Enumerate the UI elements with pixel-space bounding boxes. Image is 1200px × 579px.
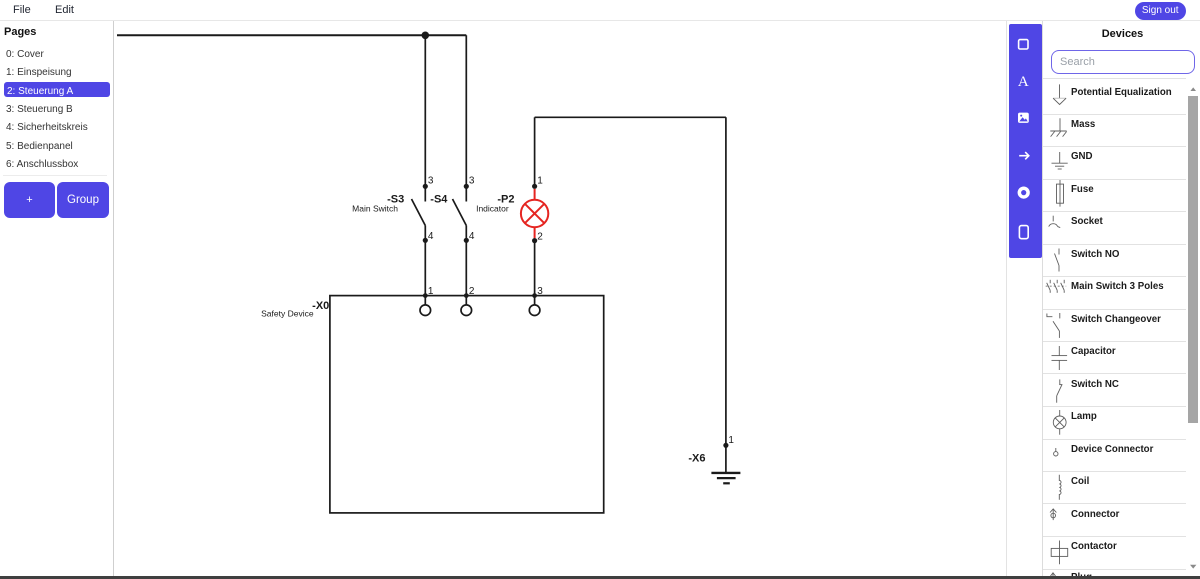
switch S3 (NO contact, Main Switch) bbox=[412, 184, 428, 243]
svg-text:2: 2 bbox=[469, 286, 475, 297]
devices panel title bbox=[1050, 28, 1195, 40]
svg-text:3: 3 bbox=[469, 176, 475, 187]
scrollbar down arrow bbox=[1190, 565, 1196, 569]
svg-text:Safety Device: Safety Device bbox=[261, 308, 314, 318]
svg-text:2: 2 bbox=[537, 232, 543, 243]
terminal strip X0 (Safety Device box) bbox=[330, 296, 604, 513]
svg-text:4: 4 bbox=[469, 231, 475, 242]
device list separators bbox=[1043, 78, 1186, 79]
top menu bar bbox=[0, 0, 1200, 21]
svg-text:1: 1 bbox=[428, 286, 434, 297]
device list glyphs bbox=[1046, 84, 1068, 576]
toolbar icon: record dot bbox=[1018, 187, 1030, 199]
device icon: switch NO bbox=[1055, 249, 1060, 272]
device icon: lamp bbox=[1053, 410, 1066, 435]
device icon: connector bbox=[1050, 509, 1056, 520]
left sidebar bbox=[113, 21, 114, 576]
wire: S4 down to terminal strip X0 pin 2 bbox=[464, 240, 469, 305]
device icon: plug (partially visible) bbox=[1051, 573, 1056, 577]
lamp P2 (red indicator) bbox=[521, 184, 548, 244]
device icon: mass bbox=[1050, 118, 1066, 136]
toolbar icon: rectangle tool bbox=[1019, 40, 1028, 49]
toolbar icon: phone tool bbox=[1019, 226, 1028, 239]
device icon: device connector bbox=[1054, 448, 1058, 456]
wire: horizontal bus over to X6 bbox=[535, 116, 726, 118]
svg-text:Main Switch: Main Switch bbox=[352, 204, 398, 214]
add page button bbox=[4, 182, 55, 218]
canvas right border bbox=[1006, 21, 1007, 576]
svg-text:Indicator: Indicator bbox=[476, 204, 509, 214]
wire: vertical drop from bus to S4 bbox=[465, 35, 467, 186]
devices scrollbar thumb bbox=[1188, 96, 1198, 423]
svg-text:3: 3 bbox=[537, 286, 543, 297]
svg-text:3: 3 bbox=[428, 176, 434, 187]
junction node on top bus bbox=[422, 32, 430, 40]
device icon: capacitor bbox=[1052, 346, 1068, 370]
sign out button bbox=[1135, 2, 1186, 20]
search input bbox=[1051, 50, 1195, 74]
svg-text:-X6: -X6 bbox=[688, 452, 705, 464]
device icon: coil bbox=[1059, 475, 1061, 500]
device icon: socket bbox=[1049, 216, 1061, 228]
svg-text:A: A bbox=[1018, 74, 1029, 90]
svg-text:-X0: -X0 bbox=[312, 300, 329, 312]
devices panel left border bbox=[1042, 21, 1043, 579]
device icon: gnd bbox=[1052, 152, 1068, 169]
wire: top horizontal bus bbox=[117, 34, 466, 36]
svg-text:4: 4 bbox=[428, 231, 434, 242]
device names bbox=[1071, 88, 1172, 98]
device icon: main switch 3 poles bbox=[1046, 280, 1067, 293]
ground symbol at X6 bbox=[711, 445, 740, 483]
device icon: contactor bbox=[1051, 541, 1068, 565]
toolbar icons bbox=[1018, 40, 1030, 239]
group button bbox=[57, 182, 109, 218]
switch S4 (NO contact) bbox=[453, 184, 469, 243]
wire: lamp P2 down to terminal strip X0 pin 3 bbox=[532, 241, 537, 305]
svg-text:1: 1 bbox=[537, 176, 543, 187]
toolbar icon: image tool bbox=[1018, 113, 1029, 123]
device icon: potential equalization bbox=[1053, 84, 1066, 104]
bottom dark bar bbox=[0, 576, 1200, 579]
scrollbar up arrow bbox=[1190, 87, 1196, 91]
device icon: switch changeover bbox=[1047, 313, 1060, 338]
wire: S3 down to terminal strip X0 pin 1 bbox=[423, 240, 428, 305]
wire: vertical riser from lamp P2 up to bus corner bbox=[534, 117, 536, 186]
svg-text:1: 1 bbox=[728, 435, 734, 446]
toolbar icon: arrow tool bbox=[1019, 152, 1029, 159]
svg-text:-S4: -S4 bbox=[430, 194, 448, 206]
terminal X6 pin node bbox=[723, 443, 728, 448]
right vertical toolbar bbox=[1009, 24, 1042, 258]
device icon: fuse bbox=[1057, 180, 1064, 207]
wire: vertical drop to terminal X6 bbox=[725, 117, 727, 445]
selected page highlight bbox=[4, 82, 110, 97]
device icon: switch NC bbox=[1057, 379, 1063, 402]
wire: vertical drop from bus to S3 bbox=[424, 35, 426, 186]
